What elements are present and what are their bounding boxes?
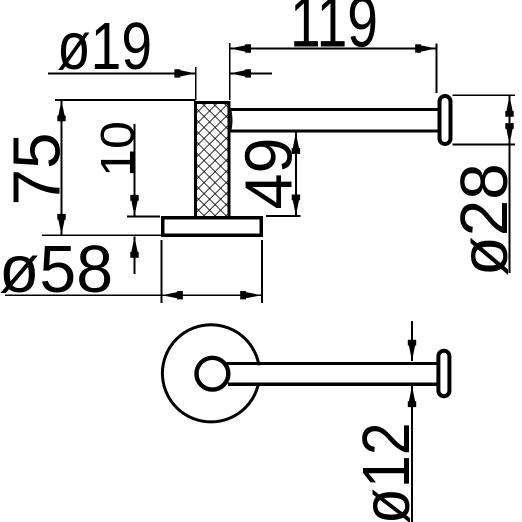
dim 10 upper leader — [134, 124, 136, 216]
dim Ø28 line — [509, 96, 511, 274]
dim Ø12 upper arrow (points down) — [408, 340, 416, 361]
dim 10 extension at flange top — [127, 216, 160, 218]
dim Ø19 extension lines — [195, 67, 197, 100]
dim Ø58 right arrow (points right) — [240, 291, 261, 299]
dim Ø58 right extension — [261, 240, 263, 303]
dim 10 upper arrow (points down) — [130, 195, 138, 216]
dim 119 right arrow (points right) — [415, 44, 436, 52]
svg-text:ø19: ø19 — [57, 9, 152, 84]
svg-text:75: 75 — [0, 133, 75, 206]
dim 49 bottom arrow (points down) — [292, 195, 300, 216]
post (wall pillar, cross-hatched section) — [195, 103, 229, 218]
dim 75 bottom extension — [42, 234, 161, 236]
dim 10 lower arrow (points up) — [130, 236, 138, 257]
dim 75 line — [61, 100, 63, 235]
bar bottom edge — [228, 383, 437, 386]
dim 49 bottom extension — [266, 215, 301, 217]
dim 119 right extension — [436, 44, 438, 94]
svg-text:49: 49 — [232, 138, 307, 210]
svg-text:ø28: ø28 — [447, 163, 522, 276]
svg-text:10: 10 — [91, 121, 144, 177]
dim Ø28 bottom extension — [453, 143, 516, 145]
dim 75 top extension — [55, 99, 195, 101]
dim Ø28 top arrow (points up) — [505, 96, 513, 117]
dim 10 lower leader — [134, 236, 136, 274]
dim 119 left arrow (points left) — [230, 44, 251, 52]
dim Ø28 top extension — [453, 94, 516, 96]
horizontal bar (roll holder arm, side view) — [229, 109, 438, 131]
dim Ø28 bottom arrow (points down) — [505, 123, 513, 144]
dim Ø19 leader line — [48, 72, 195, 74]
dim Ø19 left arrow (points right) — [174, 69, 195, 77]
end cap (front view) — [438, 351, 449, 397]
dim 119 line — [230, 48, 437, 50]
dim Ø12 lower leader — [411, 386, 413, 522]
bar top edge — [226, 362, 437, 365]
dim Ø58 left arrow (points left) — [162, 291, 183, 299]
flange circle Ø58 — [162, 325, 259, 422]
dim 49 top arrow (points up) — [292, 133, 300, 154]
dim Ø58 left extension — [161, 240, 163, 303]
bar (front view) white body — [225, 365, 437, 382]
wall flange (base plate) — [163, 218, 262, 235]
dim 75 top arrow (points up) — [57, 100, 65, 121]
dim Ø12 upper leader — [411, 321, 413, 361]
dim Ø12 lower arrow (points up) — [408, 386, 416, 407]
fillet at bar/post junction — [231, 111, 232, 130]
end cap (side view) — [440, 96, 451, 144]
svg-text:119: 119 — [290, 0, 378, 63]
post circle Ø19 — [197, 358, 229, 390]
dim Ø19 right arrow (points left) — [230, 69, 251, 77]
dim Ø19 right tail — [231, 72, 273, 74]
svg-text:ø12: ø12 — [349, 422, 424, 522]
dim Ø58 line — [5, 294, 262, 296]
dim 75 bottom arrow (points down) — [57, 214, 65, 235]
svg-text:ø58: ø58 — [0, 232, 113, 307]
dim 49 line — [295, 133, 297, 216]
